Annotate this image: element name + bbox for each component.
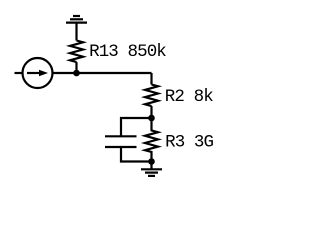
current source I1 [23,58,53,88]
wire [121,118,152,136]
wire [75,23,77,41]
node B junction [148,115,155,122]
resistor R3 [145,118,158,162]
wire [150,106,152,118]
svg-text:R13 850k: R13 850k [89,42,166,62]
ground GND top (flipped) [66,16,87,23]
wire [150,73,152,85]
ground GND bottom [141,169,162,176]
node A junction [73,70,80,77]
svg-text:R3 3G: R3 3G [165,133,213,153]
resistor R13 [70,41,83,63]
wire [75,62,77,73]
node C junction [148,158,155,165]
wire [15,72,23,74]
svg-text:R2 8k: R2 8k [165,87,213,107]
resistor R2 [145,85,158,107]
wire [53,72,152,74]
wire [150,162,152,170]
wire [121,147,152,162]
capacitor C1 [105,136,137,147]
